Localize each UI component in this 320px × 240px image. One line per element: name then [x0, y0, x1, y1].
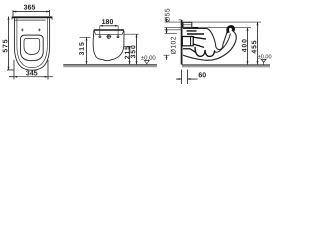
svg-text:Ø55: Ø55	[165, 8, 172, 22]
dim 315 dimension line	[79, 37, 90, 64]
dim 350 dimension line	[124, 34, 138, 64]
hinge hole right	[117, 36, 119, 38]
wall line	[181, 20, 183, 64]
svg-text:180: 180	[102, 19, 114, 26]
svg-text:60: 60	[198, 72, 206, 79]
bowl opening outer contour	[20, 35, 43, 61]
floor right view	[182, 65, 270, 68]
seat fixing cross right	[38, 29, 41, 32]
hinge hole left	[99, 36, 101, 38]
plan tank top bar	[12, 16, 53, 18]
wc section: outlet spud end cap	[190, 37, 192, 46]
wc section: spud shelf	[183, 49, 197, 53]
inlet spud	[183, 22, 192, 27]
seat fixing cross left	[21, 29, 24, 32]
wc section: bowl interior back wall	[207, 28, 216, 44]
inlet pipe extension line bottom (400)	[165, 27, 252, 29]
dim 215 dimension line	[124, 46, 131, 64]
wc section: rim cut	[226, 25, 235, 33]
level mark middle view	[141, 56, 157, 64]
wc section: outer shell front and bottom	[183, 32, 236, 60]
svg-text:315: 315	[79, 41, 86, 55]
wc section: outlet spud	[182, 37, 193, 46]
wc section: bowl interior front wall	[223, 32, 227, 45]
wc side profile seat edge	[94, 31, 124, 35]
svg-text:345: 345	[26, 70, 38, 77]
svg-text:400: 400	[241, 38, 248, 52]
dim Ø55	[166, 19, 168, 33]
inlet spud mid line	[183, 24, 192, 26]
inlet pipe extension line top (455)	[165, 21, 262, 23]
dim 180 dimension line	[100, 25, 118, 36]
level mark right view	[258, 54, 272, 64]
wc section: water trap W	[195, 47, 214, 57]
bowl opening inner contour	[24, 38, 40, 54]
plan tank front line	[14, 19, 45, 21]
wc section: sump	[215, 44, 223, 50]
dim 345 dimension line	[9, 60, 53, 80]
wc section: interior front thickness line	[215, 34, 231, 53]
wc section: bowl top surface	[183, 27, 207, 29]
wc section: trap inlet top	[193, 37, 206, 39]
dim Ø102 extension lines	[163, 30, 181, 60]
dim 60	[176, 70, 198, 85]
dim 575 dimension line	[7, 17, 14, 70]
svg-text:365: 365	[24, 5, 36, 12]
dim 400 dimension line	[246, 28, 248, 65]
wc side profile top surface	[94, 29, 124, 31]
dim 455 dimension line	[256, 22, 258, 64]
wall top tick	[179, 19, 182, 21]
svg-text:455: 455	[251, 40, 258, 54]
dim 365 dimension line	[13, 10, 50, 16]
wc section: trap inlet bottom	[193, 44, 204, 47]
floor middle view	[63, 65, 157, 68]
flush hole center with cross	[106, 34, 111, 39]
svg-text:350: 350	[130, 44, 137, 58]
plan body outline	[14, 18, 49, 70]
svg-text:Ø102: Ø102	[170, 36, 177, 54]
wc section: flush channel bars	[193, 27, 199, 29]
wc side profile body	[93, 30, 124, 61]
svg-text:575: 575	[2, 39, 9, 53]
plan body ear ticks	[11, 18, 13, 19]
plan body inner contour	[17, 18, 47, 68]
